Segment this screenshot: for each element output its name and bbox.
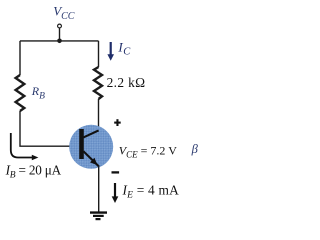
- current arrow IC: [110, 42, 112, 56]
- current arrow IE: [114, 183, 116, 198]
- svg-text:RB: RB: [31, 84, 45, 101]
- wire collector rail lower: [98, 99, 100, 130]
- node VCC terminal: [58, 24, 62, 28]
- svg-text:IE = 4 mA: IE = 4 mA: [122, 182, 180, 200]
- svg-text:β: β: [191, 142, 199, 156]
- svg-text:IC: IC: [117, 39, 131, 57]
- resistor RB: [16, 75, 25, 111]
- junction dot: [57, 39, 62, 44]
- wire VCC stub: [59, 28, 61, 41]
- svg-text:VCE = 7.2 V: VCE = 7.2 V: [119, 143, 177, 159]
- svg-text:VCC: VCC: [53, 3, 75, 22]
- current arrow IB: [11, 133, 32, 158]
- svg-text:2.2 kΩ: 2.2 kΩ: [107, 75, 146, 90]
- wire left rail lower and base lead: [20, 111, 79, 146]
- label minus: [112, 171, 120, 173]
- label plus: [114, 119, 121, 126]
- wire top rail: [20, 40, 99, 42]
- wire collector rail upper: [98, 41, 100, 67]
- resistor RC 2.2k: [94, 67, 102, 99]
- svg-text:IB = 20 μA: IB = 20 μA: [5, 163, 62, 181]
- wire emitter rail: [98, 166, 100, 213]
- wire left rail upper: [19, 41, 21, 75]
- transistor Q1: [69, 125, 113, 169]
- ground: [90, 213, 107, 220]
